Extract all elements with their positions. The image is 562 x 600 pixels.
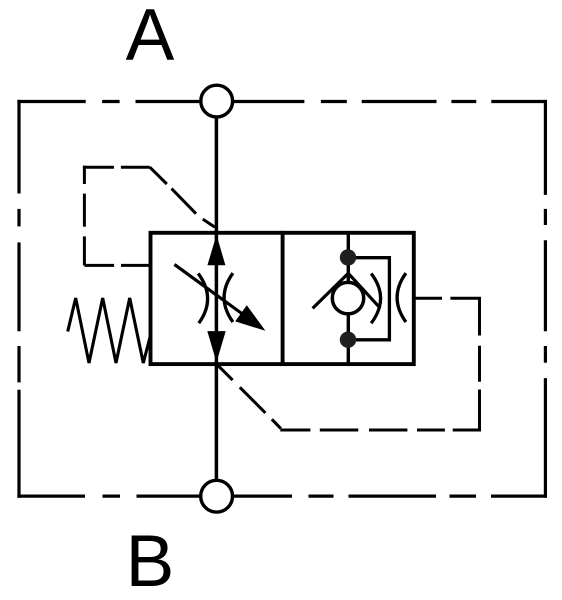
adjustability arrow shaft — [174, 264, 250, 319]
throttle arc right — [224, 273, 233, 322]
enclosure dashed border: left edge — [17, 100, 20, 498]
enclosure dashed border: top edge — [17, 100, 547, 103]
pilot line upper: left vertical — [83, 166, 86, 266]
bypass throttle arc right — [397, 273, 406, 322]
port B circle — [201, 480, 233, 512]
check valve seat right leg — [348, 273, 379, 307]
bypass throttle arc left — [371, 274, 380, 324]
port A circle — [201, 85, 233, 117]
check valve ball circle — [332, 282, 363, 313]
spring — [68, 298, 150, 363]
pilot line lower: horizontal run — [280, 429, 479, 432]
check valve seat left leg — [313, 273, 349, 308]
pilot line upper: diagonal to valve top center — [150, 167, 215, 227]
down arrowhead on flow line — [207, 331, 225, 362]
pilot line lower: stub to valve right side — [414, 297, 481, 300]
up arrowhead on flow line — [207, 235, 225, 265]
check valve flow line — [347, 233, 350, 364]
valve body divider — [281, 231, 285, 366]
enclosure dashed border: bottom edge — [17, 495, 547, 498]
throttle arc left — [198, 274, 207, 324]
enclosure dashed border: right edge — [544, 100, 547, 498]
adjustability arrowhead — [235, 305, 265, 331]
pilot line lower: diagonal from valve bottom center — [218, 365, 281, 428]
svg-text:B: B — [126, 521, 175, 600]
pilot line upper: top horizontal — [83, 166, 150, 169]
junction dot bottom — [340, 332, 356, 348]
check valve bypass rectangle — [348, 258, 389, 340]
pilot line upper: stub from left box — [84, 264, 150, 267]
svg-text:A: A — [126, 0, 175, 76]
valve body outline (two squares) — [151, 233, 414, 364]
pilot line lower: right vertical — [478, 298, 481, 431]
junction dot top — [340, 249, 356, 265]
wire: main flow line from port A to port B through valve — [215, 117, 219, 481]
